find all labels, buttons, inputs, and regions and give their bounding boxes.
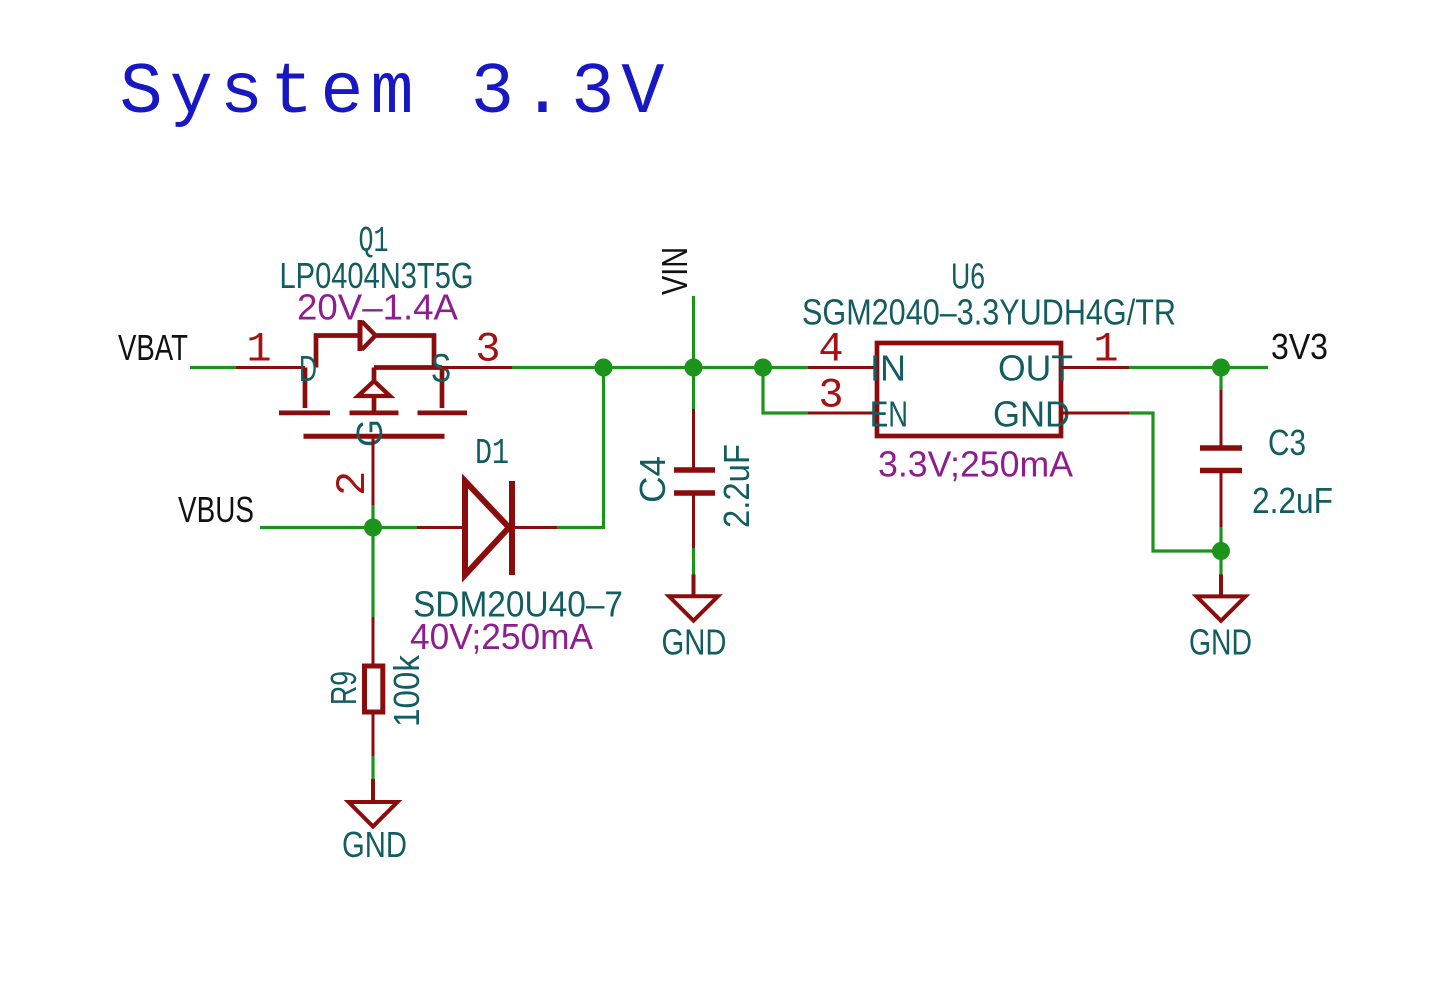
svg-text:2: 2 (329, 471, 377, 496)
reference C4 (rotated) (632, 456, 673, 503)
svg-text:1: 1 (246, 326, 271, 374)
svg-text:1: 1 (1093, 326, 1118, 374)
wire junction drop to diode cathode (557, 368, 604, 528)
pin name D (299, 348, 317, 389)
svg-text:VBAT: VBAT (118, 327, 188, 368)
svg-text:40V;250mA: 40V;250mA (410, 616, 593, 657)
svg-text:3V3: 3V3 (1271, 326, 1328, 367)
field 3.3V;250mA (878, 444, 1073, 485)
svg-text:G: G (349, 419, 390, 447)
svg-text:EN: EN (870, 394, 908, 435)
title text System 3.3V (120, 52, 665, 134)
ground label GND (C4) (662, 622, 727, 663)
wire C4 to GND (692, 548, 695, 575)
reference U6 (951, 256, 985, 297)
wire OUT to 3V3 (1129, 366, 1268, 369)
pin 2 line of Q1 (gate) (372, 436, 375, 505)
junction node VBUS (364, 519, 382, 537)
svg-text:GND: GND (342, 824, 407, 865)
ground label GND (C3) (1189, 622, 1252, 663)
svg-text:VIN: VIN (654, 247, 695, 295)
ground symbol C4 (669, 575, 718, 621)
svg-text:D1: D1 (475, 433, 509, 474)
value SDM20U40-7 (413, 584, 623, 625)
pin name EN (870, 394, 908, 435)
reference Q1 (359, 221, 389, 262)
diode D1 (417, 481, 557, 575)
field 20V-1.4A (297, 287, 458, 328)
pin number 1 (Q1 drain) (246, 326, 271, 374)
svg-text:System 3.3V: System 3.3V (120, 52, 665, 134)
junction node 3V3 (1212, 359, 1230, 377)
svg-text:3: 3 (818, 372, 843, 420)
ground symbol C3 (1197, 575, 1246, 621)
wire VBUS junction to R9 (371, 505, 374, 617)
pin number 2 (gate, rotated) (329, 471, 377, 496)
wire VIN vertical (692, 296, 695, 368)
junction node VIN (685, 359, 703, 377)
pin 3 line of U6 (EN) (808, 412, 877, 415)
net label VBAT (118, 327, 188, 368)
ground symbol R9 (349, 779, 398, 827)
junction node C3 bottom (1212, 542, 1230, 560)
pin name OUT (998, 348, 1073, 389)
svg-text:D: D (299, 348, 317, 389)
net label 3V3 (1271, 326, 1328, 367)
reference D1 (475, 433, 509, 474)
wire VBUS to D1 (260, 526, 417, 529)
value SGM2040-3.3YUDH4G/TR (802, 292, 1176, 333)
pin 1 line of U6 (OUT) (1061, 366, 1129, 369)
pin 4 line of U6 (IN) (808, 366, 877, 369)
pin number 3 (EN) (818, 372, 843, 420)
reference C3 (1268, 422, 1306, 463)
transistor Q1 body (279, 320, 467, 436)
value 100k (rotated) (386, 654, 427, 727)
reference R9 (rotated) (323, 671, 364, 705)
wire S to U6 IN (512, 366, 808, 369)
wire C3 to GND (1219, 527, 1222, 575)
pin number 4 (818, 326, 843, 374)
pin name IN (870, 348, 906, 389)
junction node (595, 359, 613, 377)
svg-text:GND: GND (1189, 622, 1252, 663)
svg-text:2.2uF: 2.2uF (716, 444, 757, 528)
svg-text:3.3V;250mA: 3.3V;250mA (878, 444, 1073, 485)
pin number 3 (Q1 source) (475, 326, 500, 374)
pin name S (431, 347, 451, 391)
svg-text:2.2uF: 2.2uF (1252, 480, 1333, 521)
net label VBUS (178, 489, 254, 530)
wire VIN junction to C4 (692, 368, 695, 410)
resistor R9 (365, 617, 383, 756)
pin name GND (993, 394, 1070, 435)
value LP0404N3T5G (280, 255, 474, 296)
pin 1 line of Q1 (236, 366, 305, 369)
ground label GND (R9) (342, 824, 407, 865)
value 2.2uF (C3) (1252, 480, 1333, 521)
pin 2 line of U6 (GND) (1061, 412, 1129, 415)
wire EN tap (763, 368, 808, 414)
value 2.2uF (C4, rotated) (716, 444, 757, 528)
pin 3 line of Q1 (source) (442, 366, 512, 369)
pin number 1 (OUT) (1093, 326, 1118, 374)
wire 3V3 to C3 (1219, 368, 1222, 391)
capacitor C4 (674, 409, 715, 548)
svg-text:IN: IN (870, 348, 906, 389)
wire R9 to GND (371, 756, 374, 779)
svg-text:VBUS: VBUS (178, 489, 254, 530)
svg-text:SGM2040–3.3YUDH4G/TR: SGM2040–3.3YUDH4G/TR (802, 292, 1176, 333)
wire VBAT to Q1 pin1 (190, 366, 236, 369)
capacitor C3 (1200, 390, 1242, 527)
regulator U6 body (877, 343, 1061, 436)
svg-text:GND: GND (993, 394, 1070, 435)
pin name G (349, 419, 390, 447)
svg-text:C3: C3 (1268, 422, 1306, 463)
wire U6 GND to C3 bottom (1129, 413, 1221, 551)
svg-text:U6: U6 (951, 256, 985, 297)
svg-text:20V–1.4A: 20V–1.4A (297, 287, 458, 328)
net label VIN (654, 247, 695, 295)
svg-text:C4: C4 (632, 456, 673, 503)
svg-text:GND: GND (662, 622, 727, 663)
field 40V;250mA (410, 616, 593, 657)
svg-text:100k: 100k (386, 654, 427, 727)
svg-text:R9: R9 (323, 671, 364, 705)
svg-text:3: 3 (475, 326, 500, 374)
svg-text:4: 4 (818, 326, 843, 374)
junction node EN tap (754, 359, 772, 377)
